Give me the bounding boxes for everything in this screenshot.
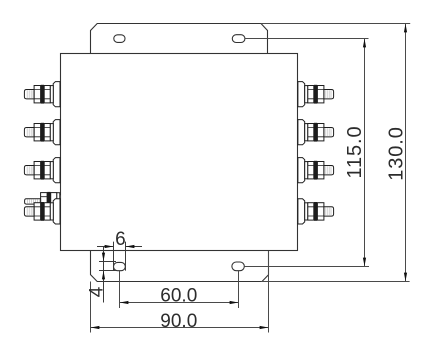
dimension 6 right arrow line bbox=[126, 246, 143, 248]
dimension 4 tick upper bbox=[99, 261, 116, 263]
dimension 115.0 line bbox=[364, 39, 366, 267]
terminal right row 1 bbox=[298, 82, 334, 107]
dimension 4 line bbox=[103, 247, 105, 303]
bottom mounting flange bbox=[91, 251, 269, 282]
extension lines for 60 dim bbox=[119, 271, 121, 308]
terminal left row 4 rear (offset) bbox=[25, 192, 67, 214]
terminal right row 2 bbox=[298, 120, 334, 145]
extension line from top slot to 115 dim bbox=[245, 38, 369, 40]
top mounting flange bbox=[91, 24, 268, 54]
top flange slot hole left bbox=[114, 35, 125, 43]
dimension 4 arrowheads bbox=[102, 253, 105, 280]
terminal left row 1 bbox=[24, 82, 60, 107]
dimension 60.0 line bbox=[120, 302, 239, 304]
dimension 60.0 arrowheads bbox=[120, 301, 239, 304]
extension lines for 90 dim bbox=[90, 282, 92, 333]
dimension 130.0 line bbox=[405, 24, 407, 282]
terminal left row 4 front bbox=[24, 199, 60, 224]
extension line from bottom slot to 115 dim bbox=[244, 266, 369, 268]
svg-text:4: 4 bbox=[86, 286, 107, 297]
svg-text:6: 6 bbox=[115, 229, 126, 250]
extension lines for 6 dim bbox=[113, 242, 115, 271]
svg-text:130.0: 130.0 bbox=[386, 126, 408, 181]
main filter body box bbox=[61, 54, 298, 251]
terminal right row 3 bbox=[298, 158, 334, 183]
terminal left row 3 bbox=[24, 158, 60, 183]
extension line from flange bottom to 130 dim bbox=[261, 281, 409, 283]
svg-text:115.0: 115.0 bbox=[344, 125, 366, 178]
dimension 115.0 arrowheads bbox=[363, 39, 366, 267]
dimension 90.0 arrowheads bbox=[91, 326, 269, 329]
bottom flange slot hole left bbox=[114, 262, 126, 270]
svg-text:90.0: 90.0 bbox=[160, 311, 197, 332]
dimension 6 left arrow line bbox=[97, 246, 114, 248]
extension line from flange top to 130 dim bbox=[261, 23, 410, 25]
terminal right row 4 bbox=[298, 199, 334, 224]
dimension 130.0 arrowheads bbox=[404, 24, 407, 282]
terminal left row 2 bbox=[24, 120, 60, 145]
dimension 90.0 line bbox=[91, 327, 269, 329]
dimension 4 tick lower bbox=[99, 270, 116, 272]
bottom flange slot hole right bbox=[232, 262, 244, 271]
svg-text:60.0: 60.0 bbox=[160, 286, 197, 307]
top flange slot hole right bbox=[232, 35, 245, 43]
